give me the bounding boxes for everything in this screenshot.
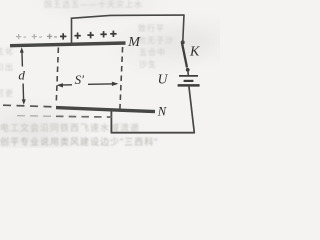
svg-text:K: K: [189, 45, 200, 60]
svg-text:U: U: [158, 72, 169, 87]
svg-text:N: N: [157, 105, 167, 119]
svg-text:S′: S′: [75, 72, 85, 87]
svg-text:M: M: [127, 35, 141, 50]
svg-text:d: d: [18, 68, 25, 83]
